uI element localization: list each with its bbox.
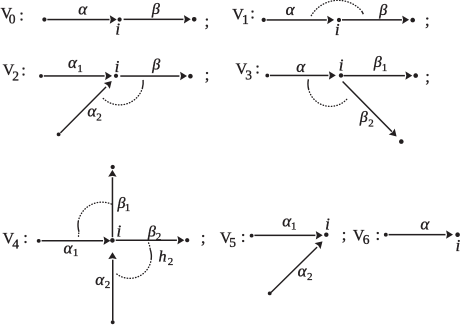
label V5: <box>220 227 246 250</box>
arrow alpha2 V2 (diagonal) <box>60 78 115 133</box>
svg-text:β: β <box>359 109 368 126</box>
svg-text:i: i <box>339 56 344 75</box>
vertex dot left V0 <box>42 17 46 21</box>
label alpha1 V4 <box>64 238 79 259</box>
arrow alpha V1 <box>267 16 335 24</box>
svg-text::: : <box>376 225 381 244</box>
svg-text::: : <box>241 227 246 246</box>
svg-text:i: i <box>456 236 461 255</box>
svg-text::: : <box>255 59 260 78</box>
label V1: <box>232 4 255 28</box>
vertex i V2 <box>114 74 118 78</box>
vertex dot left V5 <box>250 234 254 238</box>
svg-text:α: α <box>296 57 306 76</box>
relation arc V1 (dotted) <box>311 0 363 15</box>
arrow alpha1 V5 <box>254 231 322 239</box>
label V0: <box>1 5 24 26</box>
arrow beta V1 <box>342 16 409 24</box>
svg-text:5: 5 <box>229 235 236 250</box>
label V2: <box>3 61 26 84</box>
svg-text:α: α <box>420 215 430 234</box>
vertex dot left V2 <box>39 74 43 78</box>
svg-text:h: h <box>159 248 167 265</box>
svg-text:α: α <box>286 0 296 19</box>
arrow beta V0 <box>124 15 191 23</box>
svg-text:;: ; <box>205 11 210 30</box>
svg-text:2: 2 <box>168 256 174 268</box>
svg-text:i: i <box>115 57 120 76</box>
arrow alpha V6 <box>389 230 453 238</box>
vertex i V1 <box>337 18 341 22</box>
label V6: <box>353 225 380 247</box>
label alpha2 V5 <box>298 261 313 283</box>
vertex dot right V1 <box>410 18 415 23</box>
svg-text:i: i <box>115 19 120 38</box>
vertex dot lower-left V2 <box>57 133 61 137</box>
arrow beta2 V3 (diagonal) <box>343 82 400 140</box>
svg-text:3: 3 <box>245 67 252 82</box>
relation arc V2 (dotted) <box>103 80 143 105</box>
vertex dot right V2 <box>188 74 193 79</box>
svg-text::: : <box>23 228 28 247</box>
svg-text:1: 1 <box>382 62 388 74</box>
label alpha2 V2 <box>87 101 101 123</box>
svg-text:i: i <box>325 215 330 234</box>
label beta1 V3 <box>373 54 388 74</box>
svg-text:α: α <box>95 270 105 289</box>
svg-text:i: i <box>117 221 122 240</box>
vertex i V0 <box>118 17 122 21</box>
vertex dot right V0 <box>192 17 197 22</box>
svg-text::: : <box>19 5 24 24</box>
vertex dot left V4 <box>37 239 41 243</box>
svg-text:1: 1 <box>125 202 131 214</box>
svg-text:α: α <box>78 0 88 18</box>
svg-text::: : <box>21 61 26 80</box>
svg-text:;: ; <box>342 225 347 244</box>
relation arc V3 (dotted) <box>308 79 348 106</box>
label V3: <box>236 59 260 83</box>
svg-text:;: ; <box>425 11 430 30</box>
vertex i V5 <box>324 233 328 237</box>
vertex dot top V4 <box>111 165 115 169</box>
vertex dot right V3 <box>413 73 418 78</box>
arrow alpha V3 <box>270 71 336 79</box>
vertex dot lower-right V3 <box>399 139 404 144</box>
arrow beta V2 <box>120 72 187 80</box>
svg-text:β: β <box>378 2 387 19</box>
arrow beta1 V3 <box>344 71 413 79</box>
vertex dot lower-left V5 <box>268 292 272 296</box>
svg-text::: : <box>250 4 255 23</box>
vertex dot bottom V4 <box>111 320 115 324</box>
svg-text:0: 0 <box>9 12 16 27</box>
svg-text:β: β <box>151 56 160 73</box>
svg-text:2: 2 <box>12 68 19 83</box>
label alpha1 V5 <box>282 211 296 232</box>
arrow alpha2 V5 (diagonal) <box>271 238 326 293</box>
svg-text:1: 1 <box>77 63 83 75</box>
label V4: <box>3 228 28 251</box>
svg-text:;: ; <box>205 65 210 84</box>
arrow beta2 V4 (right) <box>116 236 185 244</box>
arrow alpha2 V4 (up) <box>108 252 116 320</box>
label beta1 V4 <box>117 195 131 214</box>
vertex dot right V4 <box>185 238 189 242</box>
svg-text:1: 1 <box>242 12 249 27</box>
vertex dot left V1 <box>262 18 266 22</box>
label alpha1 V2 <box>68 53 83 75</box>
label beta2 V3 <box>359 109 374 129</box>
label alpha2 V4 <box>95 270 110 291</box>
label beta2 V4 <box>147 224 161 243</box>
label h2 V4 <box>159 248 174 268</box>
arrow alpha1 V2 <box>44 72 112 80</box>
svg-text:4: 4 <box>12 236 19 251</box>
vertex i V3 <box>339 73 343 77</box>
svg-text:1: 1 <box>291 221 297 233</box>
svg-text:i: i <box>335 20 340 39</box>
svg-text:1: 1 <box>73 247 79 259</box>
arrow alpha1 V4 <box>42 237 111 245</box>
svg-text:6: 6 <box>363 232 370 247</box>
svg-text:2: 2 <box>105 279 111 291</box>
svg-text:;: ; <box>425 67 430 86</box>
svg-text:2: 2 <box>156 231 162 243</box>
svg-text:2: 2 <box>307 271 313 283</box>
vertex dot left V3 <box>265 74 269 78</box>
arrow alpha V0 <box>47 15 116 23</box>
svg-text:2: 2 <box>368 118 374 130</box>
relation arc V4 upper (dotted) <box>78 202 112 236</box>
vertex i V4 <box>110 238 115 243</box>
vertex dot right V6 <box>455 232 460 237</box>
svg-text:2: 2 <box>96 111 102 123</box>
svg-text:β: β <box>147 224 156 241</box>
svg-text:β: β <box>373 54 382 71</box>
relation arc V4 lower (dotted) <box>116 243 152 278</box>
svg-text:;: ; <box>201 228 206 247</box>
svg-text:β: β <box>151 1 160 18</box>
arrow beta1 V4 (up) <box>108 170 116 237</box>
vertex dot left V6 <box>384 233 388 237</box>
